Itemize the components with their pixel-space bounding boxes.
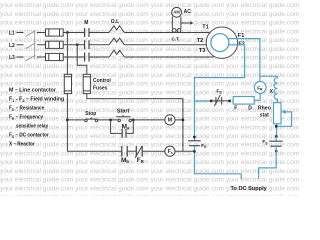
svg-text:Stop: Stop [85,111,96,117]
contact FS2 (DC contactor) [269,141,283,146]
wire Ma branch [111,120,134,133]
contact FS1 [188,141,201,146]
motor stator (armature) [206,27,237,58]
node fuse FS left [210,100,213,103]
wire bus to fuse FS [194,100,211,102]
svg-text:L3: L3 [9,55,15,61]
svg-text:FR: FR [137,157,144,164]
contactor M contact L1 [85,28,89,37]
fuse L3 [37,53,63,60]
node FS1 to coil rung [193,150,196,153]
svg-text:L2: L2 [9,43,15,49]
svg-text:T2: T2 [197,38,204,44]
stop button (NC) [85,117,98,122]
overload heater O.L L3 [109,50,124,57]
coil M [165,115,175,125]
svg-text:D: D [248,106,252,112]
wire L1 contact to O.L [89,32,109,34]
node below FS2 contact [275,150,278,153]
wire L1 fuse to contactor [63,32,84,34]
node fuse FS right [228,100,231,103]
wire L2 tap to control fuse 2 [77,45,87,75]
current transformer C.T. [172,17,181,33]
svg-text:F1 - F2 – Field winding: F1 - F2 – Field winding [9,97,64,103]
wire Mb to FR contact [127,150,136,152]
svg-text:AM: AM [173,10,180,15]
control fuse 1 [64,74,71,93]
svg-text:L1: L1 [9,31,15,37]
svg-text:Mb: Mb [121,157,129,164]
wire control right rail [87,94,183,152]
node L2 control tap [76,43,79,46]
contact Ma [122,129,126,138]
svg-text:your electrical guide.com your: your electrical guide.com your electrica… [0,46,300,53]
svg-text:your electrical guide.com your: your electrical guide.com your electrica… [0,194,300,196]
switch blade L3 [26,55,36,61]
wire L3 contact to O.L [89,56,109,58]
fuse L2 [37,41,63,48]
wire DC bus down [193,101,195,141]
svg-text:your electrical guide.com your: your electrical guide.com your electrica… [0,20,300,27]
node start right [132,119,135,122]
wire FR to resistor FD [254,93,260,100]
node left rail to stop rung [66,119,69,122]
svg-text:your electrical guide.com your: your electrical guide.com your electrica… [0,159,300,166]
switch blade L1 [26,31,36,37]
svg-text:Rheo: Rheo [258,106,271,112]
control fuse 2 [83,74,90,93]
frequency sensitive relay FR [254,82,266,94]
svg-text:T1: T1 [202,24,209,30]
svg-text:your electrical guide.com your: your electrical guide.com your electrica… [0,107,300,114]
svg-text:sensitive relay: sensitive relay [16,123,48,129]
wire L3 fuse to contactor [63,56,84,58]
svg-text:stat: stat [260,112,269,118]
svg-text:X – Reactor: X – Reactor [9,141,35,147]
node above FS1 contact [193,136,196,139]
wire control left rail [67,94,121,152]
fuse FS [211,95,229,107]
node start left [109,119,112,122]
wire L2 to motor T2 [124,44,206,46]
rheostat body [274,103,282,124]
svg-text:Control: Control [93,78,111,84]
motor field winding (rotor) [211,34,229,52]
wire L2 lead-in [17,44,24,46]
wire L2 contact to O.L [89,44,109,46]
svg-text:your electrical guide.com your: your electrical guide.com your electrica… [0,177,300,184]
svg-text:Start: Start [117,109,130,115]
svg-text:T3: T3 [199,48,206,54]
node above FS2 contact [275,135,278,138]
svg-text:your electrical guide.com your: your electrical guide.com your electrica… [0,55,300,62]
svg-text:your electrical guide.com your: your electrical guide.com your electrica… [0,142,300,149]
wire start to coil M [131,119,165,121]
wire L3 lead-in [17,56,24,58]
wire to stop button [67,119,84,121]
svg-text:your electrical guide.com your: your electrical guide.com your electrica… [0,63,300,70]
svg-text:To DC Supply: To DC Supply [231,186,268,192]
svg-text:AC: AC [184,9,192,15]
svg-text:M: M [168,118,173,124]
arrow AC current direction [181,21,193,25]
contact Mb [122,146,127,157]
wire L2 fuse to contactor [63,44,84,46]
svg-text:FR – Frequency: FR – Frequency [9,114,43,120]
wire F2 to DC bus [194,45,244,101]
ammeter AM [172,7,182,17]
svg-text:your electrical guide.com your: your electrical guide.com your electrica… [0,2,300,9]
svg-text:F: F [234,106,237,112]
svg-text:M: M [84,20,88,26]
wire L1 tap to control fuse 1 [66,33,68,75]
node rheostat wiper junction [275,125,278,128]
contactor M contact L3 [85,53,89,62]
switch blade L2 [26,43,36,49]
fuse L1 [37,29,63,36]
node coil M right rail [182,119,185,122]
svg-text:your electrical guide.com your: your electrical guide.com your electrica… [0,28,300,35]
node L1 control tap [66,31,69,34]
coil FS [165,146,175,156]
svg-text:your electrical guide.com your: your electrical guide.com your electrica… [0,168,300,175]
svg-text:your electrical guide.com your: your electrical guide.com your electrica… [0,11,300,18]
wire stop to start [98,119,118,121]
svg-text:M – Line contactor: M – Line contactor [9,88,56,94]
overload heater O.L L1 [109,26,124,33]
svg-text:C.T.: C.T. [172,37,180,42]
wire L1 lead-in [17,32,24,34]
resistor F-D [233,97,254,105]
svg-text:your electrical guide.com your: your electrical guide.com your electrica… [0,116,300,123]
wire L3 to motor T3 [124,56,213,58]
overload heater O.L L2 [109,38,124,45]
wire FR contact to coil FS [142,150,165,152]
svg-text:O.L: O.L [111,19,119,25]
start button (NO) [116,115,131,122]
reactor X coil [274,76,277,102]
contactor M contact L2 [85,40,89,49]
svg-text:FD – Resistance: FD – Resistance [9,105,44,111]
wire rheostat output [276,124,278,136]
wire L1 to motor T1 [124,32,209,34]
svg-text:your electrical guide.com your: your electrical guide.com your electrica… [0,72,300,79]
svg-text:FS: FS [262,139,268,145]
wire junction F1 to reactor [260,75,277,77]
rheostat wiper arrow [278,110,292,127]
contact FR (NC) [135,146,142,158]
wire F1 to relay FR [229,39,260,82]
svg-text:Fuses: Fuses [93,86,108,92]
wire FS2 to DC supply [259,146,277,178]
wire coil FS to bus [175,150,195,152]
svg-text:FS – DC contactor: FS – DC contactor [9,132,49,138]
wire coil M to right rail [175,119,183,121]
switch gang link [34,30,36,58]
